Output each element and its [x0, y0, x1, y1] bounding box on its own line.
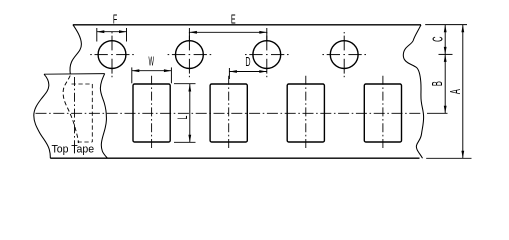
- svg-text:L: L: [176, 116, 191, 120]
- horizontal centerline of pockets: [36, 112, 422, 114]
- top tape left torn edge: [34, 74, 51, 158]
- dimension F extension lines: [96, 28, 98, 42]
- extension tick at hole centerline (C/B): [439, 53, 453, 55]
- component pocket P4: [364, 84, 401, 142]
- center mark of hole 4: [322, 32, 366, 77]
- bottom extension line for A: [426, 157, 471, 159]
- svg-text:B: B: [428, 81, 446, 86]
- center mark of hole 3: [245, 32, 289, 77]
- dimension L line: [189, 84, 191, 142]
- dimension W extension lines: [131, 67, 133, 83]
- dimension A line: [462, 25, 464, 158]
- svg-text:F: F: [113, 13, 117, 27]
- svg-text:C: C: [428, 36, 446, 42]
- svg-text:A: A: [446, 89, 464, 94]
- vertical centerline of pocket P4: [382, 76, 384, 151]
- sprocket hole 2: [176, 41, 204, 69]
- svg-text:D: D: [245, 56, 250, 70]
- vertical centerline of pocket P3: [305, 76, 307, 151]
- component pocket P2: [210, 84, 247, 142]
- dimension F line: [97, 31, 127, 33]
- dimension L extension lines: [174, 83, 196, 85]
- wire tape bottom edge: [50, 157, 419, 159]
- top extension line for C and A: [425, 24, 467, 26]
- sprocket hole 1: [98, 41, 126, 69]
- wire tape top edge: [73, 24, 421, 26]
- vertical centerline of hidden pocket P0: [74, 77, 76, 156]
- extension tick at pocket centerline (B): [427, 112, 448, 114]
- svg-text:E: E: [231, 13, 236, 27]
- dimension E line: [189, 31, 266, 33]
- dimension D line: [229, 71, 266, 73]
- svg-text:W: W: [148, 55, 154, 69]
- svg-text:Top Tape: Top Tape: [52, 143, 95, 155]
- component pocket P1: [133, 84, 170, 142]
- center mark of hole 2: [168, 32, 212, 77]
- vertical centerline of pocket P2: [228, 76, 230, 151]
- dimension E extension lines: [188, 28, 190, 42]
- top tape upper edge: [44, 73, 105, 76]
- sprocket hole 3: [253, 41, 281, 69]
- right break line: [403, 25, 423, 158]
- hidden pocket P0 under top tape: [72, 84, 93, 142]
- hidden torn edge of carrier tape under top tape: [63, 76, 78, 144]
- left torn edge of carrier tape: [70, 25, 81, 74]
- dimension B line: [444, 54, 446, 113]
- top tape right torn edge: [100, 74, 107, 159]
- dimension C line: [444, 25, 446, 55]
- center mark of hole 1: [90, 32, 134, 77]
- sprocket hole 4: [330, 41, 358, 69]
- dimension W line: [132, 70, 172, 72]
- dimension D extension line: [228, 68, 230, 79]
- component pocket P3: [287, 84, 324, 142]
- vertical centerline of pocket P1: [151, 76, 153, 151]
